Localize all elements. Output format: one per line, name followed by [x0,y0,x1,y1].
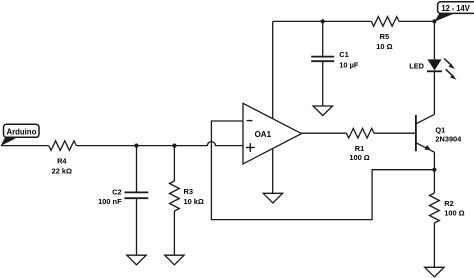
svg-text:R1: R1 [355,144,364,153]
resistor R3 10 kOhm [170,146,204,256]
Arduino input flag label [1,124,39,146]
resistor R1 100 Ohm [346,128,374,162]
ground (below R3) [165,255,184,265]
node: junction C1 [321,19,325,23]
LED light arrow 2 [446,69,457,80]
svg-text:R5: R5 [380,32,389,41]
svg-text:100 Ω: 100 Ω [349,153,369,162]
wire: op-amp output to R1 [302,132,347,134]
wire: LED cathode to Q1 collector [433,71,435,114]
wire: R1 to Q1 base [374,132,416,134]
svg-text:12 - 14V: 12 - 14V [441,4,470,13]
node: junction top rail / LED [432,19,436,23]
ground (below C1) [313,106,332,116]
resistor R2 100 Ohm [430,193,465,223]
capacitor C2 100 nF [98,146,148,256]
svg-text:100 Ω: 100 Ω [444,209,464,218]
svg-text:OA1: OA1 [255,130,272,139]
node: junction C2 [134,144,138,148]
wire: feedback from emitter to op-amp inverting input [211,121,434,220]
svg-text:100 nF: 100 nF [98,197,122,206]
resistor R5 10 Ohm [371,17,399,51]
svg-text:LED: LED [409,62,424,71]
LED [409,21,442,71]
ground (below C2) [127,255,146,265]
svg-text:10 kΩ: 10 kΩ [184,197,204,206]
svg-text:Q1: Q1 [435,125,445,134]
wire: op-amp V- pin down [272,149,274,194]
svg-text:22 kΩ: 22 kΩ [52,167,72,176]
wire: top rail left segment [273,20,372,22]
svg-text:Arduino: Arduino [6,128,36,137]
capacitor C1 10 uF [311,21,359,106]
ground (below R2) [425,267,444,277]
svg-text:2N3904: 2N3904 [435,134,462,143]
LED light arrow 1 [444,59,455,70]
ground (op-amp) [263,193,282,203]
svg-text:C1: C1 [339,50,348,59]
transistor Q1 2N3904 [416,114,462,193]
svg-text:10 µF: 10 µF [339,60,359,69]
node: emitter junction [432,168,436,172]
svg-text:C2: C2 [112,187,121,196]
op-amp OA1 [243,103,302,164]
resistor R4 22 kOhm [49,141,77,176]
svg-text:R2: R2 [444,199,453,208]
svg-text:R4: R4 [57,156,67,165]
wire: op-amp V+ pin to top rail [272,21,274,118]
svg-text:10 Ω: 10 Ω [376,42,392,51]
wire: top rail right segment [399,20,434,22]
supply label 12 - 14V flag [435,2,474,22]
node: junction R3 [172,144,176,148]
wire: Arduino to R4 [1,145,49,147]
wire: R2 to ground [433,223,435,267]
wire: R4 to op-amp + input (hops over feedback wire) [76,142,243,146]
svg-text:R3: R3 [184,187,193,196]
